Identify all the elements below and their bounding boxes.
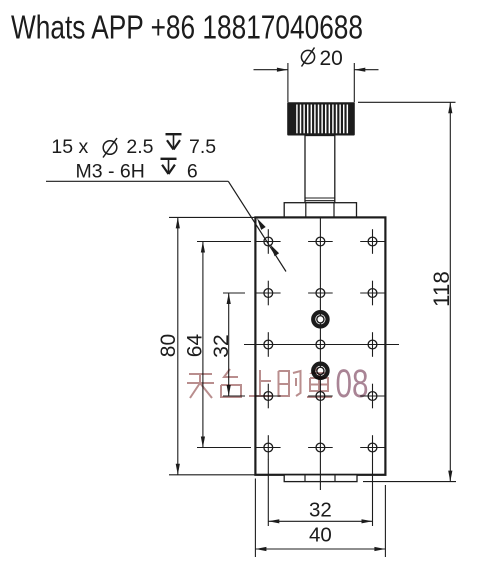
svg-text:20: 20: [320, 47, 343, 70]
svg-text:Whats APP +86 18817040688: Whats APP +86 18817040688: [11, 9, 363, 46]
svg-text:64: 64: [184, 334, 207, 358]
svg-text:40: 40: [309, 524, 332, 547]
svg-text:M3 - 6H: M3 - 6H: [76, 161, 145, 183]
svg-text:80: 80: [157, 334, 180, 357]
svg-text:15 x: 15 x: [51, 136, 88, 158]
svg-text:7.5: 7.5: [189, 136, 216, 158]
svg-text:2.5: 2.5: [126, 136, 153, 158]
svg-text:6: 6: [187, 161, 198, 183]
svg-text:118: 118: [429, 271, 454, 307]
svg-text:32: 32: [210, 334, 233, 357]
svg-text:32: 32: [309, 499, 332, 522]
svg-text:08: 08: [336, 362, 369, 406]
